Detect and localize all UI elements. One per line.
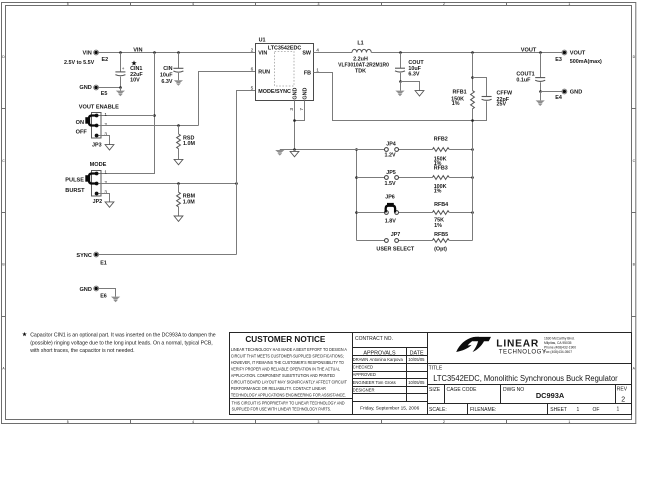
svg-text:SYNC: SYNC (76, 253, 92, 259)
svg-text:CONTRACT NO.: CONTRACT NO. (355, 336, 393, 342)
svg-text:E6: E6 (100, 294, 107, 300)
node CFFW tap top (471, 76, 474, 79)
svg-text:TECHNOLOGY APPLICATIONS ENGINE: TECHNOLOGY APPLICATIONS ENGINEERING FOR … (231, 393, 346, 398)
labels JP6 row (385, 194, 448, 229)
svg-text:REV: REV (617, 387, 628, 393)
svg-text:1: 1 (568, 420, 570, 424)
ground open RSD (174, 159, 183, 164)
node pin3/pin7 join (293, 119, 296, 122)
terminal E1 SYNC (76, 252, 106, 267)
svg-text:GND: GND (79, 287, 91, 293)
svg-text:APPROVED: APPROVED (353, 372, 376, 377)
wire VIN rail (98, 52, 256, 54)
svg-text:VIN: VIN (82, 51, 91, 57)
capacitor COUT1 0.1uF (516, 53, 545, 92)
svg-text:BURST: BURST (65, 188, 85, 194)
node E5/CIN1 junction (119, 86, 122, 89)
terminal E2 VIN (64, 50, 108, 66)
svg-text:3: 3 (104, 132, 107, 138)
svg-text:OF: OF (593, 407, 600, 413)
resistor RFB5 (Opt) (432, 239, 472, 243)
svg-text:CUSTOMER NOTICE: CUSTOMER NOTICE (245, 334, 325, 344)
svg-text:25V: 25V (497, 102, 507, 108)
capacitor CIN 10uF 6.3V (160, 53, 183, 86)
wire E5 to CIN1 (98, 87, 121, 89)
svg-text:RFB3: RFB3 (434, 165, 448, 171)
size cage dwg rev row (428, 385, 632, 404)
svg-text:DRAWN: DRAWN (353, 357, 369, 362)
svg-text:3: 3 (318, 2, 320, 6)
svg-text:CIRCUIT THAT MEETS CUSTOMER-SU: CIRCUIT THAT MEETS CUSTOMER-SUPPLIED SPE… (231, 353, 344, 358)
ground open JP2 (105, 202, 114, 207)
jumper JP6 (357, 211, 433, 215)
title block (353, 333, 632, 415)
svg-text:with short traces, the capacit: with short traces, the capacitor is not … (30, 348, 134, 354)
terminal E5 GND (79, 85, 107, 97)
scale filename sheet row (428, 404, 632, 415)
svg-text:10/05/05: 10/05/05 (408, 380, 425, 385)
ground gray COUT (395, 91, 404, 97)
ground open COUT (415, 91, 424, 96)
svg-text:Antonina Karpova: Antonina Karpova (370, 357, 404, 362)
svg-text:10V: 10V (130, 77, 140, 83)
terminal E6 GND (79, 286, 106, 299)
wire VOUT rail (371, 52, 562, 54)
svg-text:E3: E3 (555, 57, 562, 63)
svg-text:0.1uF: 0.1uF (516, 78, 531, 84)
node RSD tap (177, 124, 180, 127)
svg-text:1.5V: 1.5V (384, 181, 395, 187)
svg-text:2: 2 (104, 180, 107, 186)
shunt on JP3 pins 1-2 (85, 116, 97, 126)
svg-text:4: 4 (192, 2, 194, 6)
svg-text:TITLE: TITLE (429, 366, 443, 372)
svg-text:2: 2 (443, 420, 445, 424)
ground open JP3 (105, 145, 114, 150)
svg-text:OFF: OFF (76, 130, 88, 136)
node bus JP5 (355, 176, 358, 179)
svg-text:1: 1 (104, 170, 107, 176)
capacitor CFFW 22pF 25V (473, 78, 513, 121)
svg-text:VIN: VIN (258, 51, 267, 57)
node bus JP6 (355, 211, 358, 214)
ground gray E5 (116, 88, 125, 97)
svg-text:2: 2 (251, 48, 254, 54)
shunt on JP2 pins 1-2 (85, 174, 97, 184)
resistor RBM 1.0M (177, 184, 196, 217)
svg-text:6.3V: 6.3V (161, 79, 172, 85)
svg-text:USER SELECT: USER SELECT (376, 246, 414, 252)
svg-text:CFFW: CFFW (497, 91, 513, 97)
svg-text:PULSE: PULSE (65, 178, 84, 184)
svg-text:1.8V: 1.8V (385, 219, 396, 225)
svg-text:GND: GND (293, 88, 299, 100)
jumper JP3 VOUT ENABLE (76, 104, 120, 148)
svg-text:JP2: JP2 (93, 199, 103, 205)
capacitor COUT 10uF 6.3V (395, 53, 424, 82)
node VIN junction CIN1 (119, 51, 122, 54)
node bus JP4 (355, 148, 358, 151)
svg-text:Capacitor CIN1 is an optional: Capacitor CIN1 is an optional part. It w… (30, 333, 216, 339)
ground gray U1 (275, 150, 284, 156)
svg-text:10/05/05: 10/05/05 (408, 357, 425, 362)
wire SW to L1 (314, 52, 353, 54)
jumper JP5 (357, 176, 433, 180)
jumper JP4 (357, 148, 433, 152)
svg-text:+: + (122, 66, 125, 71)
svg-text:Fax (408)434-0507: Fax (408)434-0507 (544, 350, 572, 354)
svg-text:5: 5 (67, 2, 69, 6)
resistor RFB2 150K (432, 148, 472, 152)
node VIN junction CIN (177, 51, 180, 54)
svg-text:6: 6 (251, 66, 254, 72)
svg-text:SW: SW (302, 51, 312, 57)
svg-text:GND: GND (570, 89, 582, 95)
svg-text:1: 1 (577, 407, 580, 413)
wire COUT ground jog (401, 82, 420, 91)
node bus/JP3 pin1 (153, 114, 156, 117)
svg-text:DESIGNER: DESIGNER (353, 388, 375, 393)
wire FB pin1 (314, 73, 473, 121)
terminal E4 GND (555, 89, 582, 101)
svg-text:5: 5 (67, 420, 69, 424)
svg-text:TDK: TDK (355, 69, 366, 75)
svg-text:2.5V to 5.5V: 2.5V to 5.5V (64, 60, 95, 66)
svg-text:U1: U1 (259, 37, 266, 43)
wire E4 (541, 92, 563, 101)
svg-text:SIZE: SIZE (429, 387, 441, 393)
svg-text:4: 4 (192, 420, 194, 424)
wire JP3 pin2 to RUN (99, 125, 199, 127)
svg-text:VERIFY PROPER AND RELIABLE OPE: VERIFY PROPER AND RELIABLE OPERATION IN … (231, 367, 340, 372)
svg-text:TECHNOLOGY: TECHNOLOGY (499, 349, 547, 356)
wire U1 GND pin3 (294, 101, 296, 150)
svg-text:JP4: JP4 (386, 142, 396, 148)
svg-text:1630 McCarthy Blvd.: 1630 McCarthy Blvd. (544, 336, 575, 340)
node bus right RFB3 (471, 176, 474, 179)
svg-text:E5: E5 (101, 91, 108, 97)
svg-text:SCALE:: SCALE: (429, 407, 447, 413)
node FB junction (471, 119, 474, 122)
svg-text:RUN: RUN (258, 69, 270, 75)
svg-text:VIN: VIN (133, 47, 142, 53)
svg-text:1.2V: 1.2V (384, 153, 395, 159)
svg-text:CIRCUIT BOARD LAYOUT MAY SIGNI: CIRCUIT BOARD LAYOUT MAY SIGNIFICANTLY A… (231, 380, 347, 385)
svg-text:3: 3 (104, 190, 107, 196)
svg-text:RBM: RBM (183, 193, 196, 199)
title row (428, 364, 632, 384)
resistor RFB1 150K 1% (451, 89, 474, 108)
svg-text:1: 1 (104, 112, 107, 118)
capacitor CIN1 22uF 10V (115, 53, 143, 88)
svg-text:MODE: MODE (90, 162, 107, 168)
wire JP3 pin1 (99, 115, 155, 117)
op-amp U1 LTC3542EDC buck regulator IC (256, 37, 314, 100)
jumper JP2 MODE (65, 162, 107, 205)
wire right bus top (472, 53, 474, 241)
svg-text:(possible) ringing voltage due: (possible) ringing voltage due to the lo… (30, 340, 213, 346)
inductor L1 2.2uH VLF3010AT-2R2M1R0 TDK (338, 41, 389, 75)
svg-text:FILENAME:: FILENAME: (470, 407, 496, 413)
svg-text:Tom Gross: Tom Gross (376, 380, 396, 385)
svg-text:2: 2 (443, 2, 445, 6)
labels JP5 row (384, 165, 447, 194)
svg-text:(Opt): (Opt) (434, 246, 447, 252)
node COUT1 bottom (539, 90, 542, 93)
linear technology logo (456, 336, 576, 355)
node COUT ground (399, 80, 402, 83)
svg-text:APPLICATION. COMPONENT SUBSTI: APPLICATION. COMPONENT SUBSTITUTION AND … (231, 373, 335, 378)
svg-text:Friday, September 15, 2006: Friday, September 15, 2006 (360, 406, 419, 412)
labels JP7 row (376, 232, 448, 253)
svg-text:LTC3542EDC, Monolithic Synchro: LTC3542EDC, Monolithic Synchronous Buck … (433, 374, 618, 383)
terminal E3 VOUT (555, 50, 602, 65)
svg-text:RFB1: RFB1 (453, 89, 467, 95)
svg-text:LTC3542EDC: LTC3542EDC (268, 45, 302, 51)
svg-text:DATE: DATE (410, 350, 424, 356)
wire GND row to jumper bus (280, 149, 357, 151)
jumper JP7 (357, 239, 433, 243)
ground open U1 (290, 150, 299, 157)
wire U1 GND pin7 (295, 101, 305, 121)
svg-text:E1: E1 (100, 261, 107, 267)
svg-text:L1: L1 (357, 41, 363, 47)
svg-text:ON: ON (76, 120, 84, 126)
svg-text:CAGE CODE: CAGE CODE (447, 387, 478, 393)
node bus right RFB4 (471, 211, 474, 214)
svg-text:JP5: JP5 (386, 170, 396, 176)
svg-text:PERFORMANCE OR RELIABILITY. C: PERFORMANCE OR RELIABILITY. CONTACT LINE… (231, 386, 326, 391)
svg-text:2: 2 (621, 396, 625, 403)
svg-text:Phone (408)432-1900: Phone (408)432-1900 (544, 346, 576, 350)
svg-text:VOUT ENABLE: VOUT ENABLE (79, 104, 119, 110)
wire JP2 pin3 to ground (99, 194, 110, 202)
svg-text:JP3: JP3 (92, 142, 102, 148)
svg-text:CHECKED: CHECKED (353, 364, 373, 369)
svg-text:CIN: CIN (163, 66, 172, 72)
shunt on JP6 (386, 203, 395, 213)
node VIN junction bus (153, 51, 156, 54)
svg-text:HOWEVER, IT REMAINS THE CUSTOM: HOWEVER, IT REMAINS THE CUSTOMER'S RESPO… (231, 360, 344, 365)
node U1 ground (293, 148, 296, 151)
node MODE/SYNC junction (235, 182, 238, 185)
svg-text:VOUT: VOUT (521, 47, 537, 53)
svg-text:DC993A: DC993A (536, 391, 565, 400)
svg-text:6.3V: 6.3V (408, 71, 419, 77)
wire E6 to ground (98, 289, 115, 297)
node COUT tap (399, 51, 402, 54)
svg-text:500mA(max): 500mA(max) (570, 59, 602, 65)
node RBM tap (177, 182, 180, 185)
customer notice box (230, 333, 353, 415)
svg-text:ENGINEER: ENGINEER (353, 380, 375, 385)
svg-text:MODE/SYNC: MODE/SYNC (258, 89, 291, 95)
svg-text:10uF: 10uF (160, 72, 173, 78)
wire RUN pin6 (199, 72, 256, 126)
svg-text:3: 3 (318, 420, 320, 424)
ground gray COUT1 (536, 100, 545, 106)
svg-text:Milpitas, CA 95035: Milpitas, CA 95035 (544, 341, 572, 345)
svg-text:VOUT: VOUT (570, 51, 586, 57)
svg-text:RFB5: RFB5 (434, 232, 448, 238)
wire VIN bus to JP3/JP2 pin1 (99, 53, 155, 174)
svg-text:GND: GND (302, 88, 308, 100)
wire jumper left bus (356, 150, 358, 241)
svg-text:1%: 1% (434, 223, 442, 229)
wire JP3 pin3 to ground (99, 136, 110, 145)
svg-text:APPROVALS: APPROVALS (363, 350, 396, 356)
resistor RSD 1.0M (177, 126, 196, 160)
svg-text:SHEET: SHEET (550, 407, 567, 413)
resistor RFB4 75K (432, 211, 472, 215)
svg-text:1.0M: 1.0M (183, 200, 195, 206)
ground gray E6 (111, 297, 120, 303)
svg-text:JP6: JP6 (385, 194, 395, 200)
note star (22, 332, 27, 336)
svg-text:1%: 1% (452, 101, 460, 107)
svg-text:FB: FB (304, 70, 311, 76)
svg-text:RFB2: RFB2 (434, 137, 448, 143)
node COUT1 tap (539, 51, 542, 54)
resistor RFB3 100K (432, 176, 472, 180)
svg-text:5: 5 (251, 86, 254, 92)
svg-text:E4: E4 (555, 95, 562, 101)
wire MODE/SYNC pin5 vertical (237, 91, 256, 255)
svg-text:THIS CIRCUIT IS PROPRIETARY TO: THIS CIRCUIT IS PROPRIETARY TO LINEAR TE… (232, 400, 345, 405)
ground open RBM (174, 216, 183, 221)
svg-text:1: 1 (617, 406, 620, 412)
svg-text:JP7: JP7 (391, 232, 401, 238)
note text (30, 333, 216, 354)
node RFB1 top (471, 51, 474, 54)
svg-text:DWG NO: DWG NO (503, 387, 524, 393)
svg-text:SUPPLIED FOR USE WITH LINEAR T: SUPPLIED FOR USE WITH LINEAR TECHNOLOGY … (232, 407, 332, 412)
wire SYNC (98, 254, 236, 256)
wire JP2 pin2 / MODE row (99, 183, 237, 185)
svg-text:RFB4: RFB4 (434, 202, 448, 208)
svg-text:1.0M: 1.0M (183, 141, 195, 147)
svg-text:VLF3010AT-2R2M1R0: VLF3010AT-2R2M1R0 (338, 62, 389, 68)
svg-text:GND: GND (79, 85, 91, 91)
labels JP4 row (384, 137, 447, 167)
svg-text:LINEAR TECHNOLOGY HAS MADE A B: LINEAR TECHNOLOGY HAS MADE A BEST EFFORT… (231, 347, 348, 352)
node bus right RFB2 (471, 148, 474, 151)
svg-text:1%: 1% (434, 189, 442, 195)
svg-text:E2: E2 (102, 57, 109, 63)
ground gray CIN (174, 80, 183, 86)
svg-text:1: 1 (568, 2, 570, 6)
